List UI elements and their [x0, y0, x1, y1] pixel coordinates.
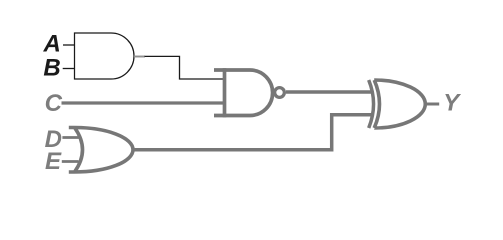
wire NAND output to XOR top input — [286, 90, 371, 93]
wire OR output to XOR bottom input — [133, 115, 371, 150]
wire B input stub — [63, 68, 75, 70]
wire E input stub — [62, 160, 79, 163]
or-gate U3 (D OR E) — [69, 128, 133, 173]
wire Y output stub — [425, 103, 439, 106]
svg-text:C: C — [45, 90, 63, 117]
xor-gate U4 body — [374, 80, 425, 128]
svg-text:B: B — [43, 54, 60, 81]
wire AND output to NAND top input — [145, 56, 224, 79]
wire AND output gray stub — [134, 56, 145, 58]
wire C to NAND bottom input — [62, 101, 225, 104]
nand-gate U2 back edge — [223, 68, 227, 117]
xor-gate U4 input arc — [369, 80, 374, 128]
wire D input stub — [62, 136, 79, 139]
and-gate U1 (A AND B) — [75, 33, 135, 79]
nand-gate U2 body — [214, 70, 273, 116]
svg-text:E: E — [45, 148, 62, 175]
nand bubble — [275, 88, 285, 98]
svg-text:Y: Y — [443, 89, 461, 116]
wire A input stub — [63, 44, 75, 46]
